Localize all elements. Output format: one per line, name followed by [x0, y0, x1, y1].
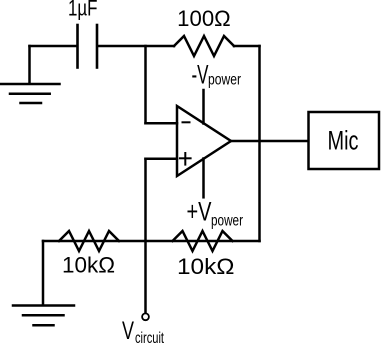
- wire node A vertical to inverting input: [144, 46, 147, 123]
- wire ground to C1: [30, 45, 77, 48]
- svg-text:power: power: [211, 213, 243, 230]
- resistor R3 10k zigzag (right): [173, 231, 233, 251]
- resistor R1 100 ohm zigzag: [174, 36, 234, 56]
- svg-text:10kΩ: 10kΩ: [177, 254, 235, 279]
- wire bottom rail horizontal: [43, 240, 260, 243]
- ground GND2 (bottom-left): [13, 306, 74, 326]
- wire R1 to right rail: [234, 45, 260, 48]
- node Vcircuit terminal circle: [142, 313, 149, 320]
- wire +Vpower supply stub: [202, 159, 205, 198]
- svg-text:V: V: [122, 317, 134, 344]
- op-amp U1 triangle: [177, 106, 231, 176]
- svg-text:1µF: 1µF: [68, 0, 98, 20]
- wire plus input down to Vcircuit node: [144, 159, 147, 313]
- wire C1 to R1: [98, 45, 174, 48]
- svg-text:+V: +V: [187, 197, 212, 227]
- wire left rail to ground GND2: [42, 241, 45, 305]
- wire to op-amp minus input: [146, 122, 178, 125]
- wire -Vpower supply stub: [202, 90, 205, 124]
- svg-text:10kΩ: 10kΩ: [62, 253, 115, 278]
- Mic box: [309, 112, 380, 169]
- svg-text:100Ω: 100Ω: [177, 6, 231, 31]
- resistor R2 10k zigzag (left): [59, 231, 119, 251]
- svg-text:-V: -V: [192, 59, 209, 89]
- op-amp plus pin symbol: [180, 153, 191, 165]
- wire op-amp output to Mic: [231, 140, 308, 143]
- wire to op-amp plus input: [146, 157, 178, 160]
- op-amp minus pin symbol: [183, 121, 190, 123]
- capacitor C1 plates: [78, 25, 98, 68]
- ground GND1 (top-left): [0, 46, 60, 103]
- svg-text:power: power: [208, 72, 241, 89]
- svg-text:Mic: Mic: [328, 125, 359, 155]
- svg-text:circuit: circuit: [135, 330, 164, 344]
- wire right rail vertical: [258, 46, 261, 241]
